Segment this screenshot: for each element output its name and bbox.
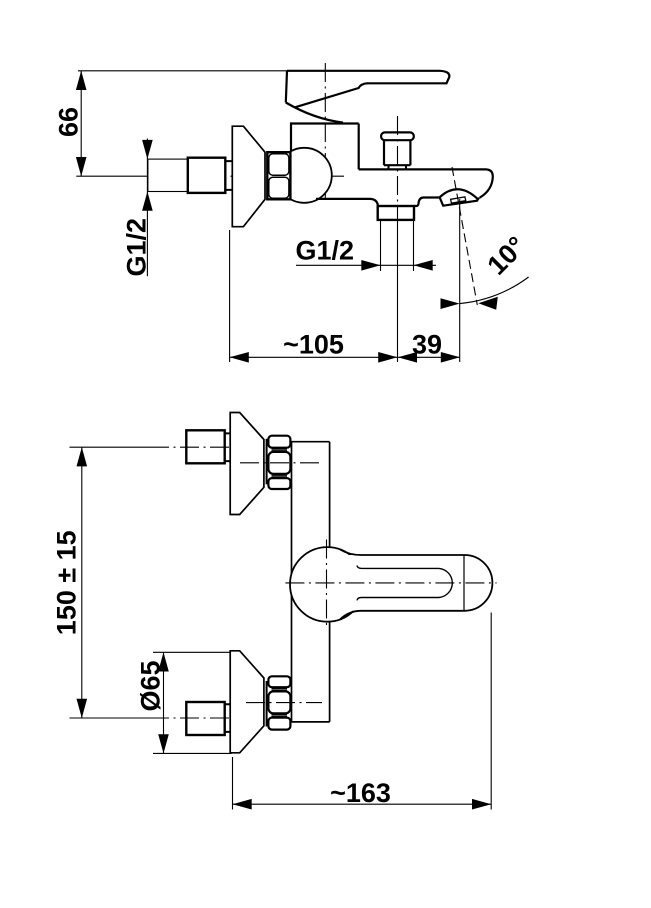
G1/2 bottom dimension (outlet)	[380, 221, 382, 272]
outlet pipe	[378, 206, 414, 220]
spout nose underside / visor	[440, 197, 479, 205]
diverter knob	[381, 132, 414, 140]
svg-text:~163: ~163	[330, 778, 391, 808]
ball joint	[277, 148, 332, 203]
centerlines front view	[70, 446, 151, 448]
angle arc	[460, 277, 529, 304]
visor detail parallelogram	[451, 197, 466, 203]
horizontal pipe centerline: solid ext + dash-dot	[76, 175, 147, 177]
svg-text:150 ± 15: 150 ± 15	[52, 530, 82, 635]
arc arrowheads	[441, 298, 460, 309]
hex nut (side view)	[267, 152, 290, 199]
handle grip capsule	[349, 555, 492, 611]
inner capsule	[357, 566, 452, 601]
inlet pipe thick section	[188, 158, 226, 193]
spout top edge and nose	[359, 169, 493, 197]
150 +- 15 dimension	[81, 447, 83, 718]
cartridge cap arc	[286, 103, 343, 123]
inlet pipe thin section	[148, 159, 188, 191]
10 deg dashed line	[452, 167, 477, 305]
body	[292, 441, 330, 443]
body centerline (vertical dash-dot)	[324, 63, 326, 199]
svg-text:G1/2: G1/2	[296, 236, 355, 266]
~105 / 39 dimensions	[229, 230, 231, 362]
top wall fitting	[186, 413, 290, 515]
escutcheon (side view cone)	[232, 126, 265, 227]
svg-text:G1/2: G1/2	[122, 218, 152, 277]
svg-text:66: 66	[54, 107, 84, 137]
body	[290, 122, 359, 124]
svg-text:39: 39	[412, 330, 442, 360]
bottom wall fitting (mirrored)	[186, 651, 290, 753]
handle hub circle	[290, 547, 365, 622]
~163 dimension	[232, 757, 234, 810]
step to escutcheon	[225, 161, 232, 190]
lever left edge	[286, 71, 287, 103]
knob centerline	[397, 116, 399, 224]
dia 65 dimension	[153, 651, 231, 653]
G1/2 left dimension	[146, 139, 148, 277]
extension line: lever top to 66 dim	[78, 70, 290, 72]
svg-text:Ø65: Ø65	[136, 660, 166, 711]
capsule end line	[463, 555, 465, 611]
66 dimension	[80, 71, 82, 176]
lever handle	[287, 71, 449, 108]
svg-text:~105: ~105	[283, 330, 344, 360]
spout underside left of outlet	[316, 199, 378, 206]
